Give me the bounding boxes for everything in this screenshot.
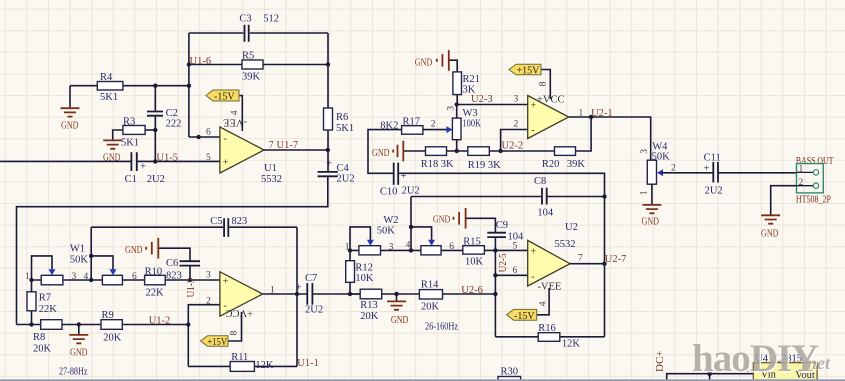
resistor R13	[360, 289, 382, 322]
svg-text:R10: R10	[145, 266, 163, 277]
svg-text:C7: C7	[305, 273, 317, 284]
svg-text:C2: C2	[166, 108, 178, 119]
wire connector pin2 to ground	[771, 186, 797, 215]
svg-text:10K: 10K	[465, 257, 484, 268]
svg-text:100K: 100K	[463, 119, 482, 130]
capacitor C1	[125, 152, 165, 185]
wire R16 row	[495, 336, 604, 338]
svg-text:3: 3	[446, 106, 456, 111]
svg-text:R3: R3	[123, 117, 135, 128]
wire C5 row	[91, 226, 297, 228]
svg-text:20K: 20K	[33, 344, 52, 355]
svg-text:R7: R7	[39, 293, 51, 304]
junction	[187, 62, 191, 66]
svg-text:C4: C4	[337, 163, 350, 174]
resistor R4	[97, 72, 123, 103]
svg-text:+15V: +15V	[208, 337, 228, 348]
svg-text:6: 6	[449, 242, 454, 252]
resistor R3	[121, 117, 145, 149]
svg-text:512: 512	[263, 14, 279, 25]
op-amp U1B	[206, 271, 275, 318]
wire U2A output	[569, 117, 651, 160]
junction	[409, 225, 413, 229]
svg-text:22K: 22K	[39, 304, 58, 315]
svg-text:3K: 3K	[441, 159, 454, 170]
junction	[602, 194, 606, 198]
svg-text:10K: 10K	[355, 273, 374, 284]
svg-text:2U2: 2U2	[305, 305, 323, 316]
capacitor C4	[318, 159, 355, 185]
junction	[153, 84, 157, 88]
svg-text:R14: R14	[421, 279, 439, 290]
svg-text:R21: R21	[463, 74, 481, 85]
svg-text:3: 3	[206, 271, 211, 281]
svg-text:20K: 20K	[421, 301, 440, 312]
svg-text:4: 4	[84, 272, 89, 282]
svg-text:R5: R5	[242, 51, 254, 62]
wiper arrow	[49, 269, 56, 275]
svg-text:C8: C8	[534, 176, 546, 187]
svg-text:6: 6	[513, 266, 518, 276]
junction	[602, 262, 606, 266]
power tag +15V (U2A pin8)	[509, 64, 550, 99]
junction	[707, 371, 712, 376]
svg-text:3: 3	[514, 95, 519, 105]
ground GND (R13)	[387, 294, 408, 326]
junction	[348, 292, 352, 296]
wiper arrow	[428, 240, 435, 246]
junction	[348, 248, 352, 252]
svg-text:27-88Hz: 27-88Hz	[59, 367, 88, 378]
capacitor C2	[147, 108, 181, 130]
svg-text:12K: 12K	[255, 360, 274, 371]
svg-text:50K: 50K	[652, 151, 671, 162]
svg-text:haoDIY: haoDIY	[692, 337, 819, 380]
svg-text:5: 5	[206, 153, 211, 163]
svg-text:5532: 5532	[261, 174, 282, 185]
svg-text:R15: R15	[463, 237, 481, 248]
wire R3 left to ground	[113, 130, 123, 140]
capacitor C9	[487, 220, 524, 251]
svg-text:6: 6	[132, 272, 137, 282]
svg-text:+: +	[326, 159, 332, 170]
svg-text:6: 6	[206, 128, 211, 138]
svg-text:5: 5	[513, 241, 518, 251]
svg-text:DC+: DC+	[654, 351, 666, 372]
resistor R20	[542, 147, 586, 170]
junction	[589, 115, 593, 119]
wire left vertical U1-6 node	[188, 33, 190, 137]
svg-text:8K2: 8K2	[380, 121, 398, 132]
svg-text:C6: C6	[166, 258, 178, 269]
svg-text:+: +	[223, 158, 229, 169]
potentiometer wiper loop (pot left sec2)	[350, 227, 370, 251]
wire W4 wiper to C11	[662, 172, 713, 174]
svg-text:C3: C3	[239, 14, 251, 25]
junction	[455, 102, 459, 106]
op-amp U2B	[528, 222, 583, 293]
svg-text:7: 7	[578, 253, 583, 263]
svg-text:2U2: 2U2	[337, 174, 355, 185]
junction	[493, 273, 497, 277]
ground GND battery-style (C6)	[125, 238, 190, 261]
wire R18/R19/R20 row	[403, 117, 591, 151]
junction	[89, 278, 93, 282]
junction	[493, 292, 497, 296]
potentiometer W1 wiper	[91, 256, 113, 270]
capacitor C8	[534, 176, 554, 219]
wire U1B output row	[263, 293, 361, 295]
svg-text:-15V: -15V	[214, 92, 235, 103]
svg-text:U1-6: U1-6	[190, 56, 212, 67]
svg-text:2U2: 2U2	[147, 174, 165, 185]
junction	[188, 278, 192, 282]
wiper arrow W3	[446, 126, 452, 133]
resistor R19	[468, 147, 501, 171]
svg-text:5K1: 5K1	[121, 138, 139, 149]
svg-text:823: 823	[166, 271, 182, 282]
svg-text:C9: C9	[496, 220, 508, 231]
svg-text:W2: W2	[383, 215, 398, 226]
junction	[493, 248, 497, 252]
svg-text:2: 2	[431, 119, 436, 129]
potentiometer W3	[446, 105, 481, 152]
svg-text:50K: 50K	[377, 226, 396, 237]
svg-text:+: +	[531, 101, 537, 112]
svg-text:W1: W1	[70, 244, 85, 255]
svg-text:12K: 12K	[562, 339, 581, 350]
svg-text:GND: GND	[372, 148, 390, 159]
wire input row	[0, 160, 220, 162]
svg-text:U2-2: U2-2	[502, 140, 524, 151]
resistor R9	[101, 310, 122, 344]
svg-text:R19: R19	[468, 160, 486, 171]
svg-text:GND: GND	[433, 214, 451, 225]
svg-text:R4: R4	[100, 72, 113, 83]
svg-text:R6: R6	[336, 112, 348, 123]
svg-text:+: +	[140, 162, 146, 173]
resistor R30 (partial)	[498, 366, 521, 381]
svg-text:26-160Hz: 26-160Hz	[425, 322, 458, 333]
svg-text:+: +	[704, 163, 710, 174]
svg-text:4: 4	[539, 301, 549, 306]
svg-text:1: 1	[25, 272, 30, 282]
svg-text:U1: U1	[264, 163, 277, 174]
junction	[394, 292, 398, 296]
wire C4 bottom loop	[17, 177, 328, 325]
wire feedback vertical right	[296, 227, 298, 366]
ground GND (R4)	[61, 108, 80, 131]
wire R4 to ground	[69, 86, 71, 108]
wire R4 row	[70, 85, 189, 87]
svg-text:8: 8	[229, 331, 239, 336]
svg-text:R16: R16	[538, 323, 556, 334]
svg-text:GND: GND	[391, 315, 409, 326]
svg-text:+VCC: +VCC	[225, 307, 253, 318]
resistor R11	[230, 352, 274, 371]
junction	[29, 322, 33, 326]
svg-text:U1-3: U1-3	[186, 279, 197, 298]
wire main row sec2	[350, 249, 528, 251]
svg-text:2: 2	[799, 178, 804, 188]
ground GND battery-style (C9)	[433, 208, 496, 233]
svg-text:-: -	[531, 125, 534, 136]
resistor R15	[463, 237, 485, 268]
connector BASS OUT HT508_2P	[796, 156, 834, 206]
svg-text:U2-5: U2-5	[498, 253, 509, 272]
svg-text:-15V: -15V	[514, 311, 535, 322]
wire W2 node vertical	[410, 197, 412, 251]
svg-text:+: +	[296, 283, 302, 294]
svg-text:GND: GND	[642, 217, 660, 228]
junction	[77, 322, 81, 326]
svg-text:-: -	[531, 272, 534, 283]
svg-text:5K1: 5K1	[100, 92, 118, 103]
watermark haoDIY.net	[692, 337, 832, 381]
wire pin6 row	[189, 136, 220, 138]
ground GND (R8/R9)	[69, 325, 88, 359]
power tag +15V (U1B pin8)	[201, 312, 242, 348]
svg-text:R20: R20	[542, 159, 560, 170]
svg-text:39K: 39K	[242, 72, 261, 83]
wire right vertical to R6	[327, 33, 329, 108]
resistor R12	[346, 250, 374, 294]
capacitor C5	[210, 216, 247, 237]
svg-text:+: +	[401, 171, 407, 182]
capacitor C6	[166, 258, 200, 282]
svg-text:U1-5: U1-5	[156, 152, 178, 163]
capacitor C11	[704, 152, 723, 196]
resistor R10	[145, 266, 166, 298]
svg-text:R11: R11	[231, 352, 248, 363]
svg-text:net: net	[807, 353, 831, 373]
junction	[186, 322, 190, 326]
svg-text:GND: GND	[70, 347, 88, 358]
svg-text:222: 222	[166, 119, 182, 130]
svg-text:C10: C10	[380, 186, 398, 197]
potentiometer W2 wiper	[411, 227, 432, 241]
potentiometer W2 box	[421, 246, 441, 255]
svg-text:39K: 39K	[567, 159, 586, 170]
svg-text:3: 3	[640, 149, 650, 154]
svg-text:U2-6: U2-6	[461, 285, 483, 296]
wire R17 to W3 wiper	[423, 129, 448, 131]
resistor R14	[419, 279, 442, 312]
junction	[409, 248, 413, 252]
resistor R8	[33, 320, 62, 355]
svg-text:C5: C5	[210, 216, 222, 227]
junction	[326, 148, 330, 152]
svg-text:U2-3: U2-3	[471, 94, 493, 105]
junction	[89, 254, 93, 258]
svg-text:R17: R17	[403, 117, 421, 128]
junction	[196, 135, 200, 139]
wire U2A pin3 row	[457, 104, 528, 106]
bottom window edge	[0, 379, 845, 381]
potentiometer W1 box	[102, 275, 122, 285]
wire R5 row	[189, 64, 328, 66]
svg-text:GND: GND	[61, 120, 79, 131]
wire W1 node vertical	[90, 227, 92, 280]
svg-text:R8: R8	[33, 332, 45, 343]
ground GND battery-style (R21)	[415, 50, 449, 71]
svg-text:2: 2	[206, 297, 211, 307]
wire C2 column	[154, 86, 156, 162]
svg-text:C1: C1	[125, 174, 137, 185]
power tag -15V (U2B pin4)	[507, 288, 550, 322]
svg-text:22K: 22K	[146, 288, 165, 299]
svg-text:-VEE: -VEE	[223, 117, 247, 128]
wire DC+ rail	[667, 374, 754, 381]
svg-text:GND: GND	[415, 58, 433, 69]
svg-text:GND: GND	[125, 245, 143, 256]
resistor R17	[380, 117, 423, 135]
svg-text:C11: C11	[704, 152, 721, 163]
svg-text:104: 104	[508, 231, 525, 242]
wire U2B output	[570, 263, 605, 265]
svg-text:1: 1	[799, 165, 804, 175]
svg-text:8: 8	[539, 81, 549, 86]
potentiometer W4	[640, 141, 671, 204]
resistor R5	[242, 51, 263, 83]
resistor R16	[538, 323, 580, 350]
wire R8/R9 row	[17, 324, 189, 326]
wire R11 row	[188, 365, 297, 367]
wire main row	[32, 279, 220, 281]
svg-text:R9: R9	[102, 310, 114, 321]
svg-text:R18: R18	[421, 159, 439, 170]
svg-text:U1-2: U1-2	[149, 316, 171, 327]
potentiometer box (left pot)	[41, 275, 63, 285]
svg-text:U1-1: U1-1	[297, 358, 319, 369]
wire pin6 row	[495, 274, 527, 276]
svg-text:3K: 3K	[488, 160, 501, 171]
resistor R18	[421, 147, 454, 170]
svg-text:4: 4	[230, 110, 240, 115]
svg-text:104: 104	[537, 208, 554, 219]
regulator U4 L7815	[745, 353, 817, 381]
wire C3 row	[189, 32, 328, 34]
svg-text:1: 1	[640, 190, 650, 195]
svg-text:U2: U2	[565, 222, 578, 233]
resistor R6	[324, 108, 355, 134]
svg-text:2U2: 2U2	[705, 185, 723, 196]
junction	[455, 149, 459, 153]
junction	[153, 128, 157, 132]
potentiometer box (left pot sec2)	[359, 246, 381, 255]
svg-text:2: 2	[514, 119, 519, 129]
wire R3 right	[145, 129, 155, 131]
svg-text:U2-7: U2-7	[605, 254, 627, 265]
junction	[295, 292, 299, 296]
junction	[187, 84, 191, 88]
resistor R7	[27, 280, 57, 325]
potentiometer wiper loop (pot left)	[32, 256, 53, 280]
wire R17 feedback path	[368, 130, 605, 337]
svg-text:+: +	[223, 277, 229, 288]
wiper arrow W4	[657, 169, 663, 176]
junction	[498, 149, 502, 153]
svg-text:20K: 20K	[103, 333, 122, 344]
wiper arrow	[110, 269, 117, 275]
svg-text:R13: R13	[360, 300, 378, 311]
wire R13/R14 row	[350, 293, 495, 295]
svg-text:20K: 20K	[360, 311, 379, 322]
junction	[326, 62, 330, 66]
capacitor C7	[296, 273, 324, 316]
svg-text:R12: R12	[355, 262, 373, 273]
svg-text:3: 3	[389, 243, 394, 253]
svg-text:7: 7	[269, 141, 274, 151]
ground GND (R3)	[103, 140, 122, 163]
svg-text:HT508_2P: HT508_2P	[796, 195, 831, 206]
svg-text:+: +	[531, 247, 537, 258]
wire C11 to connector	[718, 172, 796, 174]
svg-text:823: 823	[232, 216, 248, 227]
ground GND (connector)	[761, 215, 780, 239]
svg-text:5532: 5532	[555, 239, 576, 250]
svg-text:50K: 50K	[70, 255, 89, 266]
op-amp U1 (U1A)	[206, 117, 282, 186]
svg-text:GND: GND	[761, 228, 779, 239]
svg-text:+VCC: +VCC	[537, 95, 565, 106]
ground GND battery-style (R18)	[372, 141, 403, 162]
svg-text:3: 3	[72, 272, 77, 282]
svg-text:2U2: 2U2	[402, 186, 420, 197]
wire pin2 path	[188, 305, 220, 367]
power tag -15V (U1A pin4)	[206, 90, 242, 131]
capacitor C10	[380, 163, 420, 198]
svg-text:+15V: +15V	[517, 66, 541, 77]
wire pin6 node vertical	[494, 250, 496, 336]
junction	[29, 278, 33, 282]
wire U2A pin2 row	[501, 130, 528, 152]
wire U1A output	[264, 149, 328, 151]
svg-text:R30: R30	[501, 366, 519, 377]
wiper arrow	[367, 240, 374, 246]
wire C8 row	[411, 196, 605, 198]
svg-text:-: -	[224, 134, 227, 145]
capacitor C3	[239, 14, 279, 42]
wire R6 bottom to C4	[327, 130, 329, 171]
op-amp U2A	[528, 95, 584, 139]
ground GND (W4)	[642, 205, 662, 228]
resistor R21	[449, 60, 480, 104]
junction	[153, 159, 157, 163]
svg-text:5K1: 5K1	[336, 123, 354, 134]
